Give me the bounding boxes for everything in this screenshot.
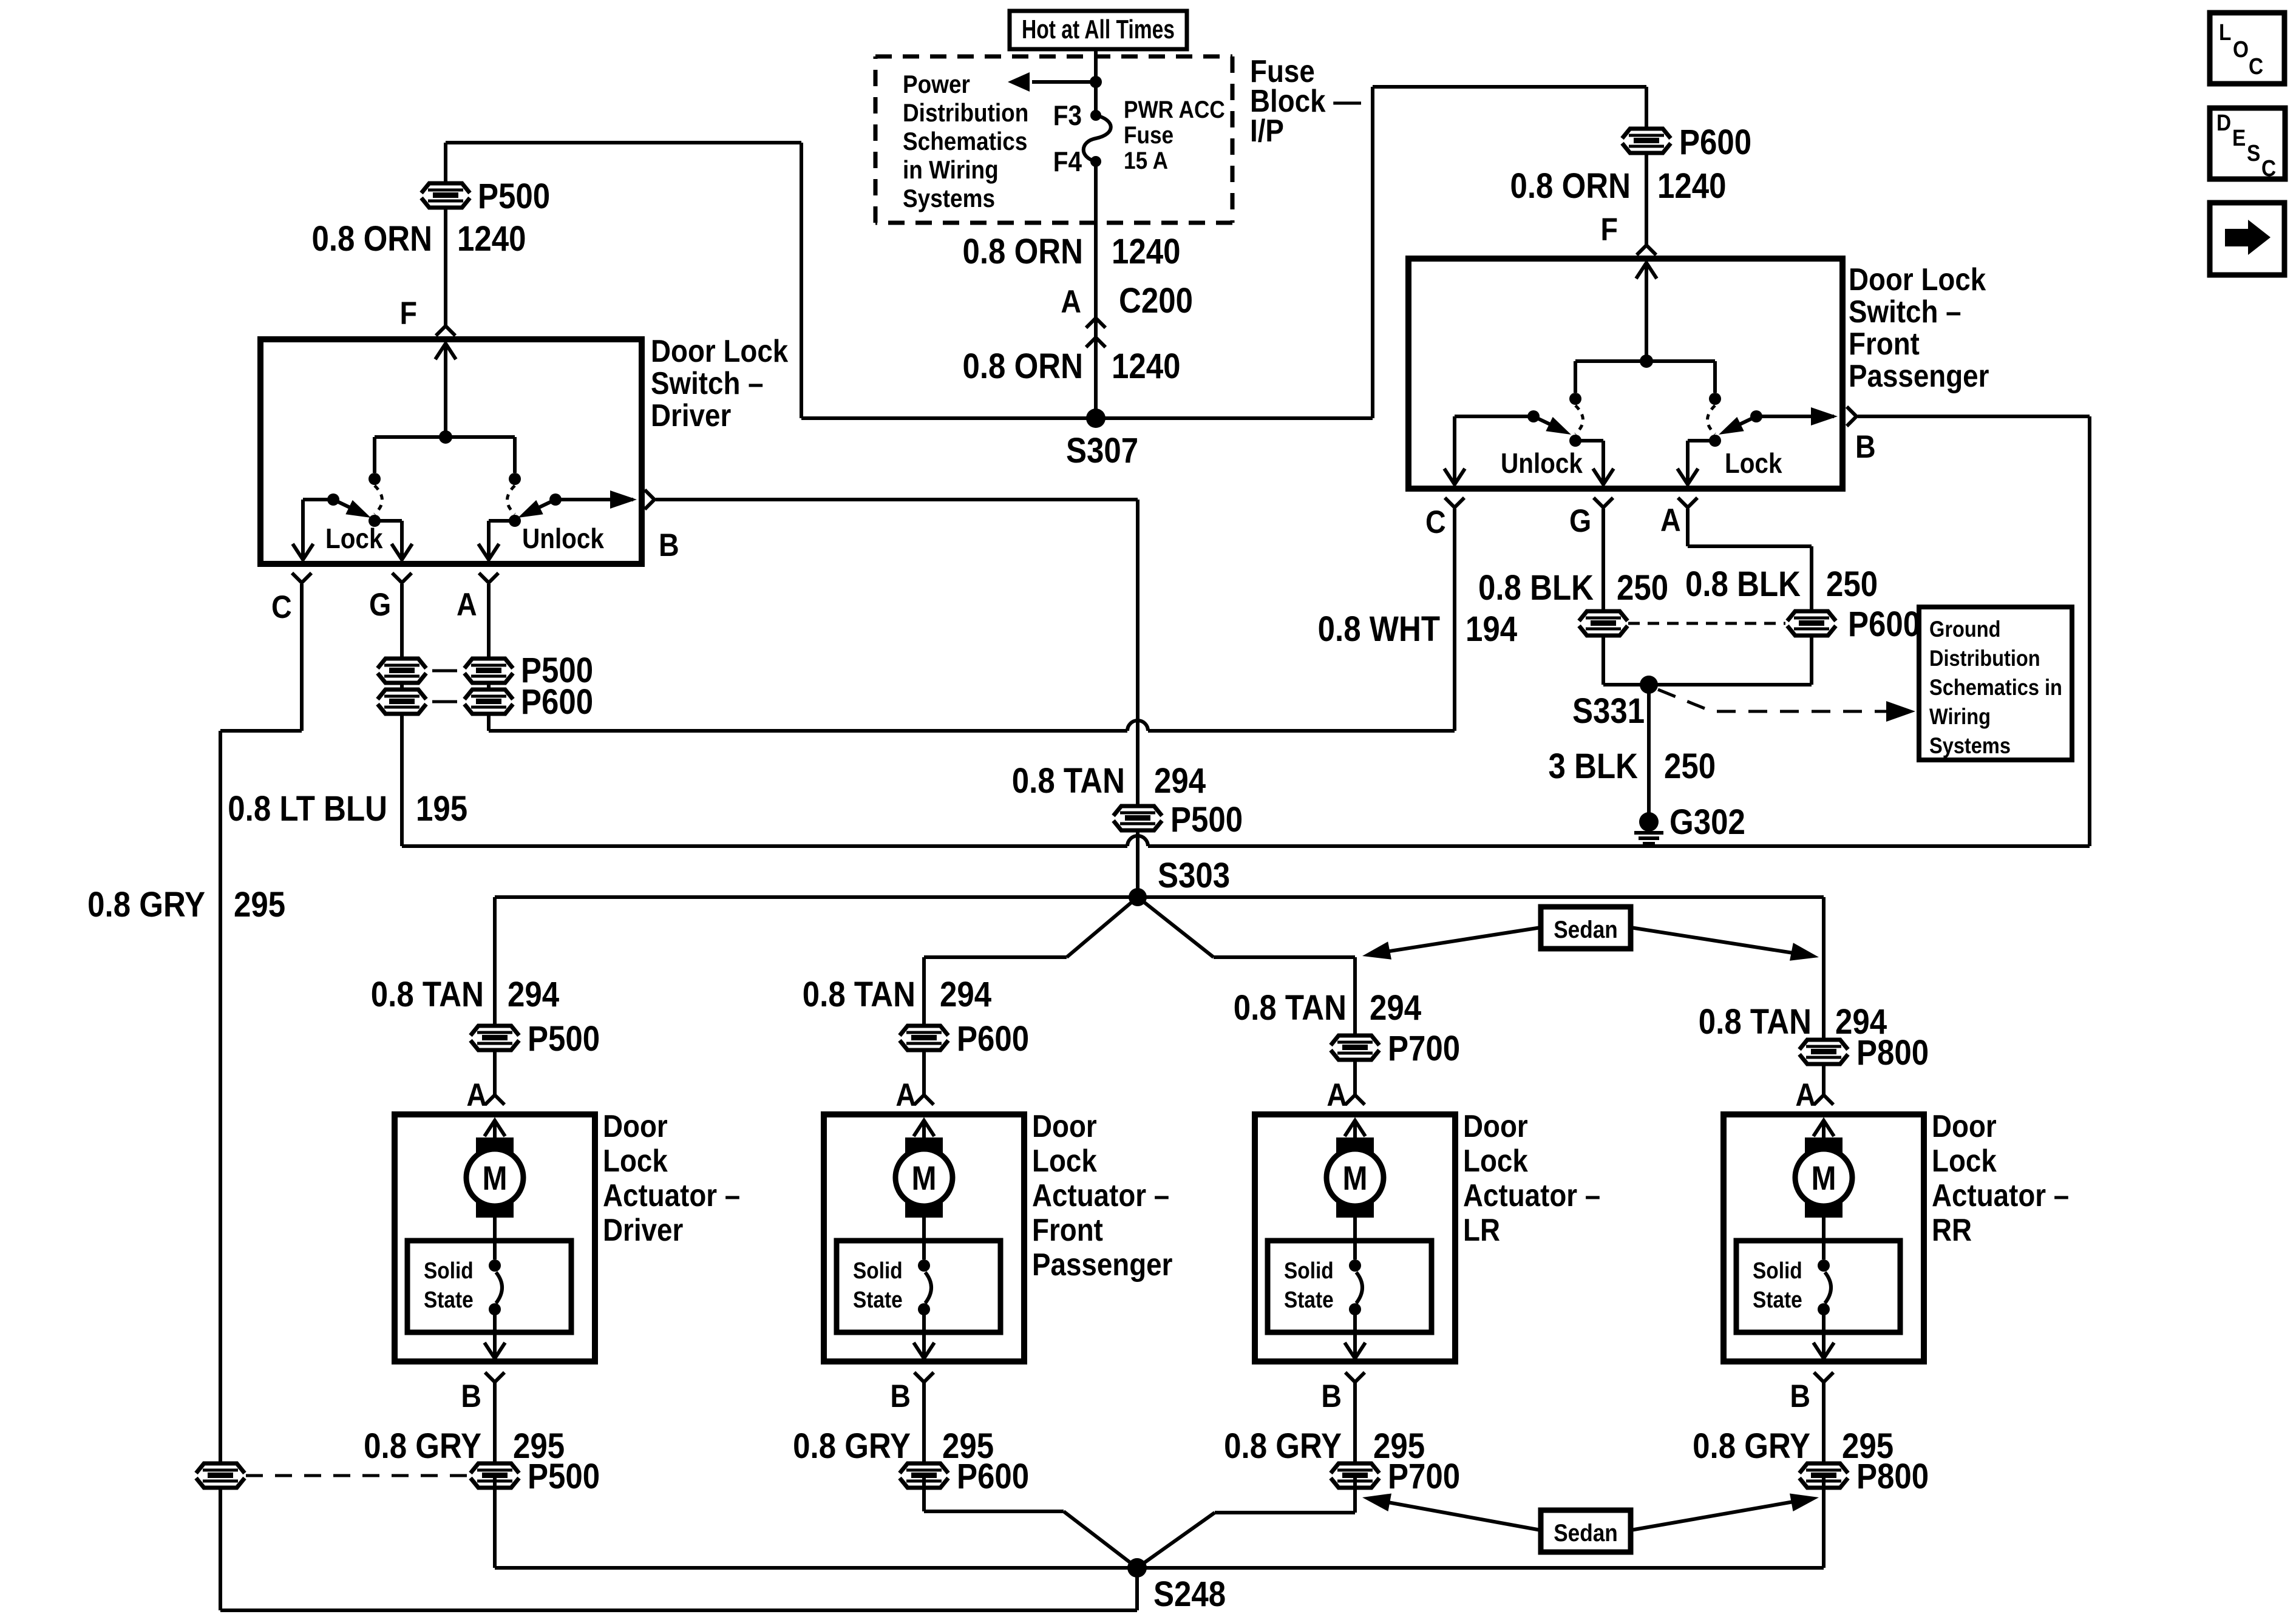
wire: top-right horizontal run (1373, 85, 1646, 89)
component box: Door Lock Switch - Driver (260, 339, 642, 564)
svg-text:B: B (1790, 1378, 1810, 1414)
svg-text:C: C (2261, 155, 2276, 181)
svg-text:Door: Door (603, 1109, 668, 1144)
svg-text:Door Lock: Door Lock (1849, 262, 1986, 297)
svg-text:State: State (853, 1287, 903, 1312)
svg-text:250: 250 (1826, 564, 1878, 604)
svg-text:Fuse: Fuse (1124, 121, 1173, 149)
svg-text:250: 250 (1617, 568, 1668, 608)
svg-text:C: C (2249, 53, 2263, 79)
pin B chevron (actuator Driver) (485, 1372, 504, 1382)
Sedan arrow to actuator 3 feed (1378, 927, 1541, 953)
dash between G and A connectors row 2 (432, 700, 457, 703)
svg-text:P600: P600 (521, 682, 593, 722)
legend box arrow (2210, 203, 2284, 275)
driver pin G chevron (392, 573, 412, 583)
motor M (actuator LR) (1336, 1137, 1374, 1153)
in-line connector P800 (actuator RR B) (1799, 1463, 1848, 1488)
svg-text:G: G (1569, 503, 1591, 538)
driver switch left branch wire (373, 437, 376, 473)
svg-text:Power: Power (903, 70, 970, 99)
svg-text:B: B (659, 527, 679, 563)
wire: LT BLU run to right riser (hops TAN column) (402, 844, 1127, 848)
dash between G and A connectors row 1 (432, 670, 457, 673)
svg-text:295: 295 (234, 885, 285, 924)
passenger switch left common contact dot (1569, 435, 1581, 447)
svg-text:Actuator –: Actuator – (1463, 1178, 1600, 1213)
svg-text:0.8 ORN: 0.8 ORN (1510, 166, 1631, 206)
svg-text:0.8 ORN: 0.8 ORN (962, 232, 1083, 271)
svg-text:0.8 WHT: 0.8 WHT (1318, 609, 1440, 649)
svg-text:A: A (1061, 283, 1081, 319)
wire: actuator 1 feed drop (493, 897, 497, 1096)
wire: actuator 1 B to bottom bus (493, 1476, 497, 1568)
svg-text:0.8 GRY: 0.8 GRY (793, 1426, 911, 1466)
S303 left diagonal branch (1067, 897, 1138, 957)
svg-text:Switch –: Switch – (651, 366, 764, 401)
svg-text:F: F (400, 295, 417, 331)
svg-text:Passenger: Passenger (1032, 1247, 1172, 1282)
wire: GRY column down to bottom run (219, 731, 222, 1610)
in-line connector P500 (driver G) (378, 659, 426, 683)
svg-text:B: B (890, 1378, 911, 1414)
svg-text:S303: S303 (1158, 856, 1230, 895)
wire from fuse F4 down to S307 (1094, 161, 1098, 418)
svg-text:194: 194 (1466, 609, 1518, 649)
chevron at actuator 4 pin A (1814, 1095, 1833, 1105)
svg-text:0.8 TAN: 0.8 TAN (1012, 761, 1125, 801)
svg-text:C: C (1425, 504, 1446, 540)
motor M (actuator Driver) (476, 1137, 514, 1153)
svg-text:0.8 GRY: 0.8 GRY (364, 1426, 481, 1466)
svg-text:Driver: Driver (603, 1213, 683, 1247)
svg-text:0.8 ORN: 0.8 ORN (311, 219, 432, 259)
riser from bottom run up to S248 (1135, 1569, 1139, 1610)
arrow into pin A (driver) (487, 527, 491, 557)
passenger switch right dashed throw arc (1708, 405, 1716, 434)
svg-text:S307: S307 (1066, 431, 1138, 470)
svg-text:Actuator –: Actuator – (1032, 1178, 1169, 1213)
S331 bar wire (1603, 683, 1812, 686)
legend box DESC (2210, 108, 2285, 179)
svg-text:Door Lock: Door Lock (651, 334, 789, 368)
svg-text:Actuator –: Actuator – (1932, 1178, 2069, 1213)
svg-text:Front: Front (1032, 1213, 1103, 1247)
dashed arrow from S331 to Ground Distribution note (1658, 690, 1894, 711)
passenger switch Unlock arm arrow (1533, 416, 1561, 430)
svg-text:195: 195 (416, 789, 467, 829)
S303 right diagonal branch (1138, 897, 1214, 957)
svg-text:A: A (1660, 502, 1681, 538)
svg-text:LR: LR (1463, 1213, 1500, 1247)
dashed line from left GRY connector to actuator 1 connector (246, 1474, 469, 1477)
svg-text:P700: P700 (1388, 1457, 1460, 1496)
passenger switch Lock pivot dot (1750, 410, 1762, 422)
svg-text:G302: G302 (1669, 802, 1745, 842)
wire from right common to pin A (driver) (489, 519, 515, 523)
note box: Ground Distribution Schematics in Wiring Systems (1919, 607, 2072, 760)
in-line connector P600 (passenger F) (1622, 129, 1671, 153)
svg-text:Door: Door (1463, 1109, 1528, 1144)
wire: TAN column down to S303 (1136, 500, 1140, 897)
svg-text:S: S (2247, 140, 2260, 166)
wire: run to actuator 3 feed (1214, 955, 1355, 959)
driver switch Unlock pivot dot (549, 493, 562, 506)
svg-text:Systems: Systems (1929, 733, 2011, 758)
passenger switch left branch contact dot (1569, 393, 1581, 405)
driver switch Lock pivot dot (327, 493, 339, 506)
passenger switch feed junction dot (1640, 354, 1653, 368)
chevron at passenger F pin (1637, 245, 1656, 255)
wire from left common to pin G (passenger) (1575, 439, 1603, 442)
wire: pin B down (actuator Front Passenger) (922, 1382, 926, 1476)
svg-text:P600: P600 (1848, 605, 1920, 644)
svg-text:A: A (466, 1077, 487, 1113)
solid state box (actuator Front Passenger) (837, 1241, 1000, 1332)
svg-text:F: F (1601, 211, 1618, 247)
in-line connector P500 (driver F) (421, 183, 470, 208)
svg-text:M: M (482, 1159, 507, 1198)
driver switch Lock arm arrow (333, 500, 361, 513)
in-line connector P600 (driver A) (464, 690, 513, 714)
wire: actuator 4 B to bottom bus (1822, 1476, 1826, 1568)
in-line connector (passenger G, ground) (1579, 611, 1628, 636)
driver switch right dashed throw arc (508, 486, 515, 514)
svg-text:PWR ACC: PWR ACC (1124, 96, 1225, 123)
wire from right common to pin A (passenger) (1688, 439, 1715, 442)
component box: Door Lock Actuator RR (1724, 1114, 1924, 1361)
wire: pin B down (actuator LR) (1353, 1382, 1357, 1476)
svg-text:L: L (2219, 19, 2231, 45)
svg-text:P600: P600 (957, 1457, 1029, 1496)
in-line connector P600 (passenger A, ground) (1787, 611, 1836, 636)
solid state switch contacts (actuator LR) (1349, 1259, 1361, 1272)
svg-text:Front: Front (1849, 327, 1920, 361)
driver switch Unlock arm arrow (528, 500, 555, 513)
chevron at actuator 2 pin A (914, 1095, 934, 1105)
svg-text:A: A (1326, 1077, 1347, 1113)
svg-text:1240: 1240 (1112, 347, 1181, 386)
wire/arrow: solid state to pin B (actuator LR) (1353, 1309, 1357, 1344)
wire: top-left horizontal run (446, 141, 801, 144)
svg-text:0.8 GRY: 0.8 GRY (1224, 1426, 1342, 1466)
svg-text:3 BLK: 3 BLK (1549, 747, 1638, 786)
passenger pin C chevron (1445, 498, 1464, 507)
svg-text:F3: F3 (1053, 101, 1082, 132)
component box: Door Lock Actuator Driver (395, 1114, 595, 1361)
junction S303 (1129, 888, 1147, 906)
svg-text:Lock: Lock (1725, 449, 1782, 480)
pin B chevron (driver) (645, 490, 654, 509)
svg-text:0.8 TAN: 0.8 TAN (371, 975, 484, 1014)
svg-text:B: B (1321, 1378, 1342, 1414)
svg-text:State: State (1753, 1287, 1802, 1312)
svg-text:Lock: Lock (603, 1144, 668, 1178)
wire: motor to solid state switch (actuator RR) (1822, 1216, 1826, 1259)
power feed box: Hot at All Times (1010, 11, 1187, 49)
junction dot in fuse block (1090, 76, 1102, 88)
driver switch feed T-bar (375, 435, 515, 439)
svg-text:F4: F4 (1053, 147, 1082, 178)
in-line connector P700 (actuator LR B) (1331, 1463, 1379, 1488)
driver switch left branch contact dot (369, 473, 381, 485)
wire from left common to pin G (driver) (375, 519, 402, 523)
svg-text:Lock: Lock (1463, 1144, 1528, 1178)
svg-text:B: B (1855, 429, 1876, 464)
driver switch feed arrow from F (444, 346, 447, 437)
chevron at actuator 3 pin A (1345, 1095, 1365, 1105)
in-line connector P600 (actuator Front Passenger B) (900, 1463, 948, 1488)
svg-text:G: G (369, 586, 391, 622)
svg-text:P500: P500 (528, 1019, 600, 1059)
svg-text:State: State (424, 1287, 474, 1312)
svg-text:Actuator –: Actuator – (603, 1178, 740, 1213)
driver switch right branch wire (513, 437, 517, 473)
svg-text:0.8 BLK: 0.8 BLK (1685, 564, 1801, 604)
wire/arrow: solid state to pin B (actuator Front Passenger) (922, 1309, 926, 1344)
wire: run to actuator 2 feed (924, 955, 1067, 959)
in-line connector P500 (driver A) (464, 659, 513, 683)
wire/arrow from Unlock pivot to pin B (driver) (555, 498, 633, 501)
wire/arrow: solid state to pin B (actuator Driver) (493, 1309, 497, 1344)
svg-text:State: State (1284, 1287, 1334, 1312)
splice S307 bus wire (801, 416, 1373, 420)
passenger pin A chevron (1678, 498, 1697, 507)
svg-text:Wiring: Wiring (1929, 704, 1991, 729)
wire: passenger C riser (1453, 509, 1456, 731)
svg-text:Hot at All Times: Hot at All Times (1022, 15, 1175, 44)
arrow into pin C (passenger) (1453, 448, 1456, 482)
svg-text:294: 294 (508, 975, 560, 1014)
svg-text:A: A (895, 1077, 916, 1113)
pin B chevron (actuator LR) (1345, 1372, 1365, 1382)
svg-text:D: D (2216, 110, 2231, 135)
component box: Door Lock Switch - Front Passenger (1408, 259, 1843, 489)
svg-text:P500: P500 (478, 177, 550, 216)
wire: actuator 3 B jog (1353, 1476, 1357, 1513)
in-line connector P600 (driver G) (378, 690, 426, 714)
svg-text:Schematics in: Schematics in (1929, 675, 2062, 700)
svg-text:P500: P500 (1170, 800, 1243, 839)
wire: driver pin G down to LT BLU run (400, 584, 404, 846)
wire: actuator 4 feed drop (1822, 897, 1826, 1096)
arrow to Power Distribution Schematics (1032, 80, 1096, 84)
svg-text:in Wiring: in Wiring (903, 156, 999, 185)
svg-text:Ground: Ground (1929, 617, 2001, 642)
svg-text:P800: P800 (1856, 1457, 1929, 1496)
in-line connector (left GRY column, unlabeled) (196, 1463, 245, 1488)
bottom run wire to S248 riser (220, 1609, 1137, 1612)
S303 bus wire (495, 895, 1824, 899)
passenger switch right branch contact dot (1709, 393, 1721, 405)
arrow into pin G (driver) (400, 527, 404, 557)
svg-text:S331: S331 (1572, 691, 1645, 731)
junction S331 (1640, 676, 1658, 694)
svg-text:294: 294 (940, 975, 992, 1014)
pin B chevron (actuator Front Passenger) (914, 1372, 934, 1382)
passenger switch Unlock pivot dot (1527, 410, 1540, 422)
svg-text:294: 294 (1154, 761, 1206, 801)
svg-text:0.8 TAN: 0.8 TAN (1234, 988, 1347, 1028)
passenger switch feed arrow from F (1645, 265, 1648, 361)
svg-text:C: C (271, 589, 292, 625)
wire: pin B down (actuator Driver) (493, 1382, 497, 1476)
svg-text:0.8 BLK: 0.8 BLK (1478, 568, 1594, 608)
solid state box (actuator RR) (1736, 1241, 1900, 1332)
wire from Hot at All Times into fuse block (1094, 49, 1098, 115)
actuator Driver feed arrow (493, 1123, 497, 1140)
wire: passenger pin A jog to BLK drop (1686, 509, 1690, 546)
svg-text:1240: 1240 (1112, 232, 1181, 271)
svg-text:0.8 TAN: 0.8 TAN (1699, 1002, 1812, 1042)
wire: riser from S307 bus up to top-left run (800, 143, 803, 418)
in-line connector P500 (actuator 1 feed) (470, 1026, 519, 1050)
wire: driver pin A down to cross run (487, 584, 491, 731)
chevron at driver F pin (436, 326, 455, 336)
svg-text:15 A: 15 A (1124, 147, 1168, 174)
wire: down to driver switch F pin (444, 143, 447, 327)
arrow into pin C (driver) (301, 523, 305, 557)
solid state switch contacts (actuator RR) (1818, 1259, 1830, 1272)
svg-text:P600: P600 (957, 1019, 1029, 1059)
arrow into pin A (passenger) (1686, 447, 1690, 482)
in-line connector P500 (TAN column) (1113, 806, 1162, 830)
passenger switch right branch wire (1713, 361, 1717, 393)
wire: driver pin B to TAN column (656, 498, 1138, 501)
driver switch left dashed throw arc (375, 486, 382, 514)
passenger switch feed T-bar (1575, 359, 1715, 363)
svg-text:Sedan: Sedan (1554, 1519, 1618, 1547)
wire: passenger pin G down to S331 bar (1601, 509, 1605, 685)
actuator Front Passenger feed arrow (922, 1123, 926, 1140)
wire: riser from S307 bus up to top-right run (1371, 87, 1374, 418)
svg-text:294: 294 (1370, 988, 1422, 1028)
bottom bus wire to S248 (495, 1566, 1824, 1570)
svg-text:B: B (461, 1378, 481, 1414)
passenger pin G chevron (1594, 498, 1613, 507)
driver switch left common contact dot (369, 515, 381, 527)
svg-text:0.8 GRY: 0.8 GRY (87, 885, 205, 924)
wire: passenger B run (1858, 415, 2090, 418)
svg-text:C200: C200 (1119, 281, 1193, 320)
svg-text:Solid: Solid (1753, 1258, 1802, 1283)
wire: LT BLU riser up to passenger B run (2088, 416, 2091, 846)
svg-text:M: M (1342, 1159, 1367, 1198)
svg-text:Solid: Solid (1284, 1258, 1334, 1283)
flag box: Sedan (lower) (1541, 1510, 1631, 1552)
wire: motor to solid state switch (actuator Driver) (493, 1216, 497, 1259)
svg-text:Distribution: Distribution (903, 99, 1028, 127)
svg-text:Systems: Systems (903, 185, 995, 213)
passenger switch right common contact dot (1709, 435, 1721, 447)
wire: down to passenger switch F pin (1645, 87, 1648, 246)
chevron at actuator 1 pin A (485, 1095, 504, 1105)
svg-text:O: O (2233, 36, 2249, 62)
svg-text:P800: P800 (1856, 1033, 1929, 1073)
solid state switch contacts (actuator Driver) (489, 1259, 501, 1272)
svg-text:Distribution: Distribution (1929, 646, 2040, 671)
svg-text:A: A (457, 586, 477, 622)
svg-text:M: M (911, 1159, 936, 1198)
svg-text:0.8 LT BLU: 0.8 LT BLU (228, 789, 387, 829)
wire from Unlock pivot to pin C (passenger) (1455, 415, 1533, 418)
arrow into pin G (passenger) (1601, 447, 1605, 482)
svg-text:E: E (2232, 125, 2246, 151)
dashed line between ground connectors (1628, 622, 1785, 625)
svg-text:Driver: Driver (651, 398, 731, 433)
Sedan arrow to actuator 4 feed (1631, 927, 1797, 954)
svg-text:Lock: Lock (1932, 1144, 1997, 1178)
svg-text:A: A (1795, 1077, 1816, 1113)
ground G302 symbol (1639, 812, 1659, 832)
svg-text:Unlock: Unlock (522, 524, 605, 555)
fuse block dashed outline (875, 55, 1232, 59)
wire from Lock pivot to pin C (303, 498, 333, 501)
driver switch feed junction dot (439, 430, 452, 444)
wire: pin B down (actuator RR) (1822, 1382, 1826, 1476)
wire: motor to solid state switch (actuator Front Passenger) (922, 1216, 926, 1259)
wire: cross run to passenger C (hops TAN column) (489, 729, 1127, 733)
in-line connector P500 (actuator Driver B) (470, 1463, 519, 1488)
pin B chevron (actuator RR) (1814, 1372, 1833, 1382)
solid state box (actuator LR) (1268, 1241, 1432, 1332)
in-line connector P700 (actuator 3 feed) (1331, 1036, 1379, 1060)
svg-text:0.8 ORN: 0.8 ORN (962, 347, 1083, 386)
svg-text:250: 250 (1664, 747, 1716, 786)
pin B chevron (passenger) (1847, 407, 1856, 426)
svg-text:Door: Door (1932, 1109, 1997, 1144)
svg-text:Solid: Solid (424, 1258, 474, 1283)
svg-text:Solid: Solid (853, 1258, 903, 1283)
Sedan arrow to actuator 3 B (1378, 1500, 1541, 1530)
svg-text:RR: RR (1932, 1213, 1972, 1247)
actuator RR feed arrow (1822, 1123, 1826, 1140)
svg-text:P600: P600 (1679, 123, 1751, 162)
driver switch right branch contact dot (509, 473, 521, 485)
svg-text:Unlock: Unlock (1501, 449, 1583, 480)
diagonal from actuator 3 run to S248 (1137, 1513, 1215, 1568)
Sedan arrow to actuator 4 B (1631, 1501, 1797, 1530)
wire/arrow from Lock pivot to pin B (passenger) (1756, 415, 1834, 418)
svg-text:0.8 TAN: 0.8 TAN (803, 975, 915, 1014)
passenger switch Lock arm arrow (1728, 416, 1756, 430)
flag box: Sedan (upper) (1541, 907, 1631, 949)
in-line connector C200 pin A (double chevron) (1086, 318, 1106, 328)
wire: motor to solid state switch (actuator LR) (1353, 1216, 1357, 1259)
svg-text:Door: Door (1032, 1109, 1097, 1144)
svg-text:Schematics: Schematics (903, 127, 1027, 156)
fuse F3/F4 PWR ACC Fuse 15 A (1090, 110, 1101, 121)
junction S248 (1127, 1558, 1147, 1578)
component box: Door Lock Actuator LR (1255, 1114, 1455, 1361)
junction S307 (1086, 408, 1106, 428)
component box: Door Lock Actuator Front Passenger (824, 1114, 1024, 1361)
svg-text:S248: S248 (1153, 1575, 1226, 1614)
driver pin A chevron (479, 573, 498, 583)
solid state box (actuator Driver) (407, 1241, 571, 1332)
svg-text:I/P: I/P (1250, 114, 1284, 148)
svg-text:Lock: Lock (1032, 1144, 1097, 1178)
svg-text:Lock: Lock (325, 524, 383, 555)
wire: driver pin C down and left to GRY column (300, 584, 304, 731)
svg-text:Sedan: Sedan (1554, 916, 1618, 943)
motor M (actuator RR) (1805, 1137, 1843, 1153)
actuator LR feed arrow (1353, 1123, 1357, 1140)
svg-text:0.8 GRY: 0.8 GRY (1693, 1426, 1810, 1466)
wire/arrow: solid state to pin B (actuator RR) (1822, 1309, 1826, 1344)
svg-text:Passenger: Passenger (1849, 359, 1989, 393)
passenger switch left dashed throw arc (1575, 405, 1583, 434)
